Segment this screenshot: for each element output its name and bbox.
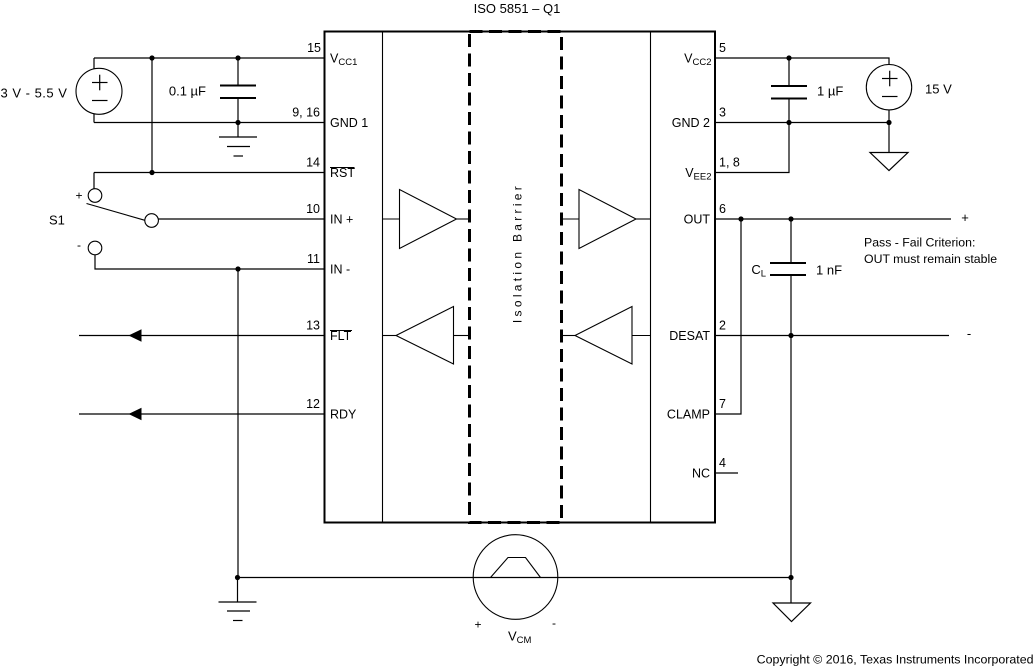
svg-text:0.1 µF: 0.1 µF: [169, 84, 206, 99]
svg-text:GND 1: GND 1: [330, 116, 368, 130]
node GND2/V2 junction: [886, 120, 891, 125]
node OUT/CL junction: [788, 216, 793, 221]
switch S1 - contact: [88, 241, 102, 255]
svg-text:10: 10: [306, 202, 320, 216]
svg-text:3: 3: [719, 106, 726, 120]
wire IN+ rail: [158, 218, 324, 220]
svg-text:Copyright © 2016, Texas Instru: Copyright © 2016, Texas Instruments Inco…: [757, 653, 1033, 667]
svg-text:IN +: IN +: [330, 213, 353, 227]
svg-text:-: -: [967, 326, 971, 341]
wire VCC1 rail: [94, 57, 325, 59]
node bottom-right junction: [788, 575, 793, 580]
VCM trapezoid waveform: [491, 558, 541, 578]
svg-text:11: 11: [307, 252, 320, 266]
svg-text:OUT: OUT: [684, 213, 711, 227]
wire V2 bottom stub: [888, 110, 890, 123]
svg-text:Pass - Fail Criterion:: Pass - Fail Criterion:: [864, 236, 975, 250]
wire A1 output: [457, 218, 470, 220]
wire OUT rail: [715, 218, 951, 220]
wire GND1 rail: [94, 122, 325, 124]
svg-text:ISO 5851 – Q1: ISO 5851 – Q1: [474, 1, 561, 16]
svg-text:FLT: FLT: [330, 329, 352, 343]
source VCM common-mode generator: [473, 535, 558, 620]
svg-text:RDY: RDY: [330, 408, 357, 422]
wire RST rail: [94, 172, 325, 174]
capacitor C2 plates: [771, 85, 807, 87]
wire FLT rail: [79, 335, 325, 337]
wire CLAMP tie to OUT: [715, 219, 741, 414]
svg-text:GND 2: GND 2: [672, 116, 710, 130]
wire A3 input: [562, 218, 579, 220]
wire V1 top stub: [93, 58, 95, 69]
node IN- junction: [235, 266, 240, 271]
svg-text:+: +: [75, 189, 82, 203]
svg-text:1, 8: 1, 8: [719, 156, 740, 170]
wire NC stub: [715, 472, 738, 474]
wire V1 bottom stub: [93, 114, 95, 123]
wire A2 input: [454, 335, 470, 337]
node OUT/CLAMP junction: [738, 216, 743, 221]
wire IN- drop to common rail: [237, 269, 239, 578]
capacitor C1 0.1uF top lead: [237, 58, 239, 86]
capacitor CL bottom lead: [790, 275, 792, 336]
svg-text:6: 6: [719, 202, 726, 216]
svg-text:RST: RST: [330, 166, 355, 180]
IC inner partition right: [650, 32, 652, 522]
capacitor C2 1uF top lead: [788, 58, 790, 86]
ground G4 (triangle, bottom right): [790, 578, 792, 604]
svg-text:13: 13: [306, 319, 320, 333]
wire - contact to IN-: [95, 255, 325, 269]
svg-text:4: 4: [719, 456, 726, 470]
capacitor CL plates: [770, 262, 806, 264]
voltage source V2 15V: [866, 65, 911, 110]
buffer amp A2 (fault return, left-pointing): [396, 307, 454, 365]
node GND1/C1 junction: [235, 120, 240, 125]
arrow FLT (left): [129, 329, 142, 341]
svg-text:IN -: IN -: [330, 263, 350, 277]
svg-text:CLAMP: CLAMP: [667, 408, 710, 422]
wire common bottom rail: [238, 577, 792, 579]
wire RDY rail: [79, 413, 325, 415]
node VCC2/C2 junction: [786, 55, 791, 60]
capacitor C1 bottom lead: [237, 98, 239, 123]
switch S1 pole contact: [145, 214, 159, 228]
svg-text:9, 16: 9, 16: [292, 106, 320, 120]
svg-text:DESAT: DESAT: [669, 329, 710, 343]
svg-text:1 nF: 1 nF: [816, 263, 842, 278]
voltage source V1 3V-5.5V: [76, 68, 122, 114]
svg-text:Isolation Barrier: Isolation Barrier: [511, 183, 525, 323]
svg-text:NC: NC: [692, 467, 710, 481]
svg-text:1 µF: 1 µF: [817, 84, 843, 99]
svg-text:OUT must remain stable: OUT must remain stable: [864, 252, 997, 266]
ground G2 (bottom left): [237, 578, 239, 603]
node DESAT junction: [788, 333, 793, 338]
svg-text:S1: S1: [49, 213, 65, 228]
wire GND2 rail: [715, 122, 889, 124]
ground G3 (triangle, under V2): [888, 123, 890, 153]
node VCC1/RST junction: [149, 55, 154, 60]
isolation barrier dashed box: [470, 32, 562, 523]
svg-text:5: 5: [719, 41, 726, 55]
svg-text:+: +: [474, 618, 481, 632]
svg-text:-: -: [77, 238, 81, 252]
buffer amp A4 (desat sense, left-pointing): [575, 307, 632, 365]
svg-text:3 V - 5.5 V: 3 V - 5.5 V: [1, 86, 68, 101]
node GND2/C2 junction: [786, 120, 791, 125]
wire A3 output: [636, 218, 651, 220]
node VCC1/C1 junction: [235, 55, 240, 60]
wire DESAT rail: [715, 335, 949, 337]
op-amp U1 IC body ISO5851-Q1: [325, 32, 716, 523]
wire VEE2 to GND2: [715, 123, 789, 173]
wire RST to switch + contact: [93, 173, 95, 189]
capacitor CL top lead: [790, 219, 792, 263]
svg-text:7: 7: [719, 397, 726, 411]
wire A4 output: [632, 335, 651, 337]
switch S1 + contact: [88, 189, 102, 203]
wire DESAT drop to bottom rail: [790, 336, 792, 578]
switch S1 arm: [87, 204, 145, 221]
ground G1 (below C1): [237, 123, 239, 138]
svg-text:14: 14: [306, 156, 320, 170]
svg-text:+: +: [961, 210, 969, 225]
svg-text:-: -: [552, 616, 556, 630]
capacitor C2 bottom lead: [788, 99, 790, 123]
svg-text:15: 15: [307, 41, 321, 55]
svg-text:12: 12: [306, 397, 320, 411]
svg-text:2: 2: [719, 319, 726, 333]
IC inner partition left: [382, 32, 384, 522]
wire RST tie to VCC1: [151, 58, 153, 173]
wire A4 input: [562, 335, 575, 337]
arrow RDY (left): [129, 408, 142, 420]
wire A1 input: [383, 218, 400, 220]
node bottom-left junction: [235, 575, 240, 580]
svg-text:15 V: 15 V: [925, 82, 952, 97]
node RST junction: [149, 170, 154, 175]
buffer amp A3 (output side, right-pointing): [579, 190, 636, 249]
wire VCC2 rail: [715, 58, 889, 65]
buffer amp A1 (input side, right-pointing): [400, 190, 457, 249]
capacitor C1 plates: [220, 85, 256, 87]
wire A2 output: [383, 335, 397, 337]
